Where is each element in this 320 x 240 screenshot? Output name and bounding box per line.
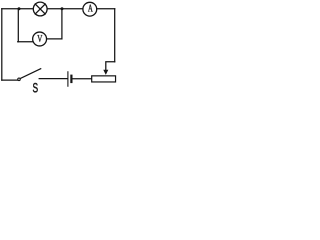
wire switch contact to battery (39, 78, 67, 80)
label V of voltmeter (37, 35, 42, 42)
wire ammeter to top-right corner (97, 8, 115, 10)
lamp L1 (33, 2, 47, 16)
battery B1 short thick plate (70, 76, 72, 82)
wire bend into voltmeter (18, 41, 33, 43)
wire voltmeter branch left vertical (17, 9, 19, 42)
rheostat R1 body (92, 76, 116, 82)
wire battery to rheostat (73, 78, 92, 80)
wire top-left corner to lamp (2, 8, 33, 10)
voltmeter V1 circle (33, 32, 47, 46)
node junction dot left (18, 7, 21, 10)
switch S1 pivot (18, 78, 21, 81)
wire voltmeter to right branch (47, 38, 62, 40)
wire bend to rheostat slider (106, 62, 115, 70)
switch S1 blade (20, 69, 40, 79)
battery B1 long plate (67, 72, 69, 86)
wire lamp to ammeter (48, 8, 83, 10)
label A of ammeter (88, 5, 93, 12)
wire voltmeter branch right vertical (61, 9, 63, 39)
node junction dot right (61, 7, 64, 10)
rheostat R1 slider arrowhead (103, 70, 108, 75)
wire left vertical side (1, 9, 3, 80)
ammeter A1 circle (83, 2, 97, 16)
label S of switch (33, 83, 38, 92)
wire bottom-left to switch (2, 79, 18, 81)
wire right vertical side (114, 9, 116, 62)
